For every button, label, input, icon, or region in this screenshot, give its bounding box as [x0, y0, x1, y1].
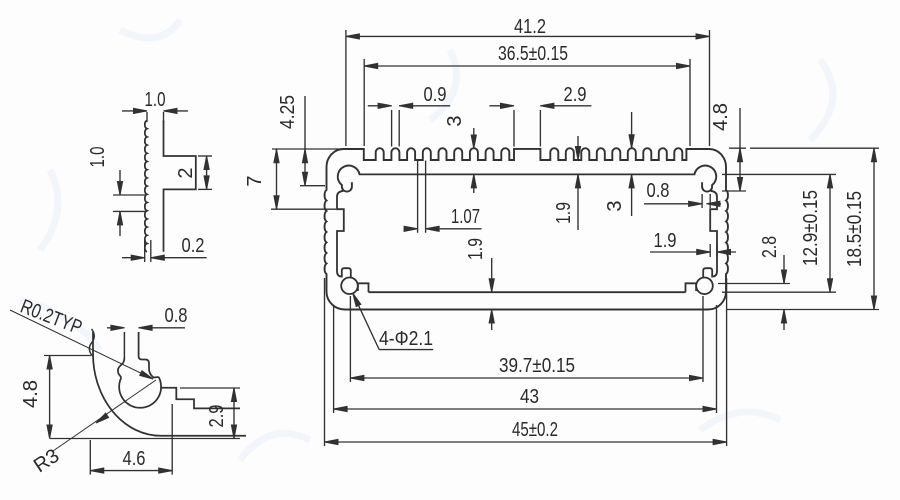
detail2 inner profile right into boss	[139, 356, 159, 378]
svg-text:0.2: 0.2	[182, 235, 205, 257]
svg-text:12.9±0.15: 12.9±0.15	[800, 190, 822, 266]
svg-text:2.9: 2.9	[564, 84, 587, 106]
svg-text:1.0: 1.0	[87, 147, 109, 168]
screw boss hole bottom-left	[341, 278, 358, 295]
inner ceiling line	[359, 173, 695, 175]
svg-text:R3: R3	[30, 445, 64, 478]
detail1 inner surface with tab	[164, 121, 196, 252]
detail1 knurled outer surface	[145, 121, 147, 252]
detail2 cover wall stubs	[123, 332, 125, 358]
dimension 36.5±0.15	[363, 59, 365, 146]
detail1 dimension 0.2	[144, 240, 146, 262]
detail2 dimension 0.8	[107, 327, 124, 329]
detail2 screw hole circle	[119, 377, 161, 408]
dimension 3 right	[631, 112, 633, 148]
dimension 41.2	[345, 30, 347, 146]
svg-text:1.9: 1.9	[465, 238, 487, 260]
svg-text:36.5±0.15: 36.5±0.15	[498, 43, 568, 65]
svg-text:3: 3	[604, 200, 626, 211]
detail2 right step profile	[160, 388, 240, 409]
svg-text:2.8: 2.8	[759, 236, 781, 258]
outer profile of extrusion body	[325, 148, 728, 309]
svg-text:0.9: 0.9	[424, 84, 447, 106]
dimension 1.07	[417, 161, 419, 233]
dimension 45±0.2	[324, 278, 326, 446]
dimension 39.7±0.15	[349, 296, 351, 382]
step tab bottom-left	[358, 283, 369, 292]
svg-text:18.5±0.15: 18.5±0.15	[844, 191, 866, 267]
svg-text:0.8: 0.8	[165, 305, 188, 327]
detail2 dimension 2.9	[180, 387, 240, 389]
right inner wall	[703, 191, 717, 277]
dimension 4.25	[272, 148, 344, 150]
svg-text:4-Φ2.1: 4-Φ2.1	[379, 328, 433, 350]
detail2 leader R3	[53, 380, 156, 451]
detail1 dimension 1.0 top	[146, 112, 148, 122]
dimension 3 left (fin height)	[473, 128, 475, 149]
left inner wall	[337, 191, 351, 277]
detail2 dimension 4.8	[44, 355, 91, 357]
svg-text:1.9: 1.9	[553, 202, 575, 224]
dimension 1.9 bottom wall	[491, 258, 493, 292]
svg-text:45±0.2: 45±0.2	[512, 419, 558, 441]
dimension 2.9	[513, 110, 515, 147]
svg-text:4.25: 4.25	[277, 95, 299, 129]
svg-text:1.07: 1.07	[451, 206, 480, 228]
detail2 bottom face	[161, 435, 246, 437]
svg-text:43: 43	[520, 386, 539, 408]
dimension 0.9	[391, 110, 393, 147]
dimension 1.9 right wall	[709, 244, 711, 257]
dimension 12.9±0.15	[722, 173, 836, 175]
svg-text:7: 7	[244, 175, 266, 186]
screw boss hole bottom-right	[696, 278, 713, 295]
svg-text:4.8: 4.8	[710, 103, 732, 131]
dimension 18.5±0.15	[750, 147, 879, 149]
detail2 R3 outer corner arc	[93, 354, 161, 436]
detail2 inner profile left into boss	[118, 358, 124, 378]
svg-text:R0.2TYP: R0.2TYP	[17, 296, 85, 339]
dimension 1.9 top wall	[577, 136, 579, 160]
dimension 0.8 right wall	[701, 194, 703, 208]
svg-text:1.9: 1.9	[654, 230, 677, 252]
svg-text:2: 2	[175, 167, 197, 178]
svg-text:3: 3	[444, 115, 466, 126]
svg-text:2.9: 2.9	[206, 405, 228, 428]
dimension 7	[271, 208, 336, 210]
dimension 2.8	[718, 283, 790, 285]
screw boss top-left (arc + keyhole hook)	[338, 166, 360, 192]
svg-text:0.8: 0.8	[647, 180, 670, 202]
faint watermark background	[20, 20, 833, 460]
detail1 dimension 1.0 left	[113, 194, 146, 196]
leader 4-Φ2.1	[350, 292, 360, 306]
inner floor line	[369, 291, 686, 293]
detail2 outer wall with break mark	[89, 329, 94, 357]
svg-text:41.2: 41.2	[514, 16, 546, 38]
screw boss top-right (arc + keyhole hook)	[694, 166, 716, 192]
svg-text:39.7±0.15: 39.7±0.15	[499, 355, 575, 377]
svg-text:4.6: 4.6	[123, 448, 146, 470]
detail2 bottom extension line	[50, 438, 240, 440]
step tab bottom-right	[686, 283, 697, 292]
detail2 dimension 4.6	[89, 440, 91, 475]
dimension 4.8 right	[729, 147, 746, 149]
svg-text:1.0: 1.0	[145, 89, 166, 111]
dimension 43	[333, 305, 335, 413]
svg-text:4.8: 4.8	[20, 380, 42, 408]
detail2 leader R0.2TYP	[10, 310, 153, 379]
detail1 dimension 2	[198, 155, 212, 157]
